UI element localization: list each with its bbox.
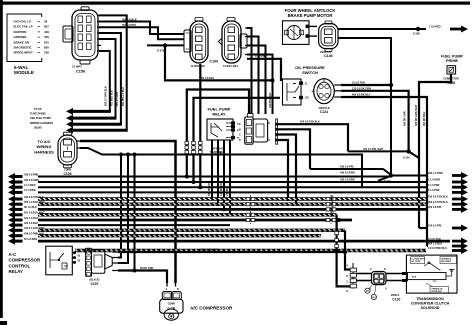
wire oil switch branch 2 [341, 87, 409, 151]
stub top of C157 pin3 wire [126, 153, 130, 161]
svg-text:FUEL PUMP: FUEL PUMP [441, 55, 463, 59]
connector C124 round body [312, 79, 335, 104]
svg-text:BRAKE PUMP MOTOR: BRAKE PUMP MOTOR [288, 13, 333, 18]
ECM bus wire row 11 with left arrow [8, 227, 345, 234]
connector C100 half A body [184, 18, 208, 64]
switch pin marks [299, 81, 309, 99]
right arrow at y=204.2 [428, 201, 468, 208]
svg-text:2 1.0 ORN: 2 1.0 ORN [428, 179, 440, 182]
ECM bus wire row 5 with left arrow [8, 196, 426, 203]
svg-text:C105: C105 [63, 172, 71, 176]
svg-text:A03: A03 [372, 296, 375, 299]
svg-text:450 0.8 TAN BLK: 450 0.8 TAN BLK [428, 201, 448, 204]
right arrow at y=241.1 [428, 238, 468, 245]
connector C124 label [318, 107, 329, 114]
connector C118 distributor body [245, 113, 278, 144]
svg-text:C120: C120 [392, 298, 400, 302]
splice on dist pin3 [294, 202, 298, 206]
connector C157 pin stubs [112, 252, 118, 271]
connector C128 label [443, 78, 459, 86]
ECM bus wire row 2 with left arrow [8, 179, 426, 186]
svg-text:C156: C156 [76, 70, 85, 74]
splice on motor ground [389, 83, 393, 87]
wire branch to C157 pin4 [134, 160, 136, 271]
svg-text:SEE FUEL PUMP: SEE FUEL PUMP [30, 116, 51, 120]
splice on C105 pin2 [119, 153, 123, 157]
svg-text:CONTROL: CONTROL [9, 263, 31, 268]
arrow to ECM row 1 [66, 108, 111, 115]
connector C118 pin marks [275, 123, 278, 141]
right arrow at y=209.4 [428, 206, 468, 213]
svg-text:450 0.8 PPL: 450 0.8 PPL [428, 206, 442, 209]
svg-text:465 DK GRN: 465 DK GRN [404, 111, 407, 126]
svg-text:3 1.0 PNK: 3 1.0 PNK [428, 184, 440, 187]
svg-text:C-138: C-138 [167, 306, 175, 310]
wire relay out 3 [223, 140, 225, 210]
wire C100 feed to oil pressure switch [247, 59, 281, 81]
wire C156 pin C to C100 [99, 27, 184, 39]
ECM bus wire row 10 with left arrow [8, 222, 230, 229]
svg-text:50 0.8 BRN: 50 0.8 BRN [24, 238, 37, 241]
stub top of C157 pin4 wire [133, 153, 137, 161]
right arrow at y=246.0 [428, 243, 468, 250]
wire feeder 3 to ECM bus row 3 [198, 64, 202, 189]
label wire 2 RED [429, 26, 441, 29]
border frame left bar [0, 0, 3, 318]
label row1 mid [340, 172, 355, 175]
svg-text:450 0.8 BLK: 450 0.8 BLK [122, 17, 137, 21]
svg-text:OPEN(S) IN: OPEN(S) IN [441, 258, 452, 260]
label vertical feeder 2 [269, 92, 272, 108]
svg-text:424 0.5 PPL: 424 0.5 PPL [428, 225, 442, 228]
svg-text:A05: A05 [366, 290, 369, 293]
relay K1 label [212, 148, 223, 156]
connector C100 label [210, 60, 219, 64]
connector C157 body [86, 248, 113, 276]
splice on dist pin4 [286, 197, 290, 201]
svg-text:857: 857 [44, 25, 49, 29]
wire C100 pin 1 down [247, 28, 252, 114]
svg-text:881 LT GRN: 881 LT GRN [116, 92, 119, 106]
svg-text:120 DK GRN: 120 DK GRN [220, 181, 223, 196]
ECM bus wire row 3 with left arrow [8, 184, 426, 191]
connector C120 label [391, 294, 401, 301]
wire splice diagonal to C128 branch [409, 151, 419, 158]
label A-C COMPRESSOR CONTROL RELAY [9, 252, 42, 274]
svg-text:31 0.8 TAN: 31 0.8 TAN [352, 82, 365, 85]
connector C156 label [72, 65, 85, 74]
wire C100 pin 2 down [247, 37, 259, 115]
wire C156 pin A down [99, 15, 127, 130]
svg-text:120 0.8 DK GRN: 120 0.8 DK GRN [352, 87, 371, 90]
svg-text:420 0.8 BLK: 420 0.8 BLK [24, 222, 38, 225]
wire dist pin3 [278, 135, 296, 205]
connector C100 half A label [191, 65, 206, 68]
right arrow at y=187.2 [428, 184, 468, 191]
inline connector column C210 on bus [246, 195, 255, 224]
arrow to ECM row 4 [66, 127, 128, 134]
svg-text:2 3.0 RED: 2 3.0 RED [429, 26, 441, 29]
svg-text:S-208: S-208 [413, 33, 420, 36]
label wire 3 PNK [255, 55, 267, 58]
wire C105 pin2 long [80, 148, 362, 187]
svg-text:PRIME: PRIME [446, 59, 458, 63]
svg-text:CLOSED WITH: CLOSED WITH [411, 258, 425, 260]
svg-text:FUSE PANEL: FUSE PANEL [30, 112, 47, 116]
svg-text:A/C COMPRESSOR: A/C COMPRESSOR [190, 306, 233, 311]
relay K1 fuel pump relay box [207, 119, 235, 140]
inline connector column C211 on bus [326, 195, 336, 224]
label vertical wire 465 [404, 111, 407, 126]
splice C157 wire on TCC vertical [343, 250, 347, 254]
connector C118 pin labels [239, 123, 241, 142]
svg-text:799: 799 [44, 51, 49, 55]
label vertical feeder 1 [248, 93, 251, 108]
wire C156 pin F to C100 via G170 [147, 44, 184, 46]
svg-text:416 0.8 TAN BLK: 416 0.8 TAN BLK [428, 196, 448, 199]
svg-text:3 1.0 PNK: 3 1.0 PNK [24, 189, 36, 192]
wire relay out 1 [211, 140, 213, 199]
svg-text:465 DK GRN: 465 DK GRN [208, 181, 211, 196]
label vertical relay wire 1 [208, 181, 211, 196]
svg-text:464 DK BLU: 464 DK BLU [423, 111, 426, 126]
svg-text:COMPRESSOR: COMPRESSOR [9, 258, 42, 263]
wire C100 pin 4 down [247, 55, 273, 115]
arrow to ECM row 2 [66, 115, 117, 122]
label FOUR WHEEL ANTILOCK BRAKE PUMP MOTOR [285, 8, 336, 18]
label wire 450 BLK [122, 17, 137, 21]
wire EST to splice S216 [348, 148, 409, 152]
splice relay wire 3 on row [222, 208, 226, 212]
motor pin stubs [306, 25, 318, 38]
ECM bus wire row 1 with left arrow [8, 173, 391, 180]
svg-text:340 0.8 ORN: 340 0.8 ORN [340, 179, 355, 182]
svg-text:59 0.8 PNK: 59 0.8 PNK [210, 151, 223, 154]
svg-text:424 0.8 TAN BLK: 424 0.8 TAN BLK [300, 121, 320, 124]
label TO A/C WIRING HARNESS [34, 139, 54, 154]
label wire 451 PPL [122, 23, 137, 27]
label FUEL PUMP RELAY [207, 107, 230, 117]
ECM bus wire row 9 with left arrow [8, 217, 352, 224]
svg-text:G170: G170 [157, 49, 165, 53]
label FUEL PUMP PRIME [441, 55, 463, 64]
svg-text:451 0.8 PPL: 451 0.8 PPL [122, 23, 137, 27]
label OIL PRESSURE SWITCH [295, 65, 325, 75]
oil switch pin stubs [334, 85, 341, 97]
relay K1 pin labels [237, 123, 241, 139]
label vertical wire 464 [423, 111, 426, 126]
svg-text:DIAGNOSTIC: DIAGNOSTIC [14, 46, 33, 50]
svg-text:IGNITION: IGNITION [14, 30, 27, 34]
svg-text:450: 450 [44, 35, 49, 39]
connector C100 half B body [218, 18, 247, 64]
svg-text:823 PPL LT BLU: 823 PPL LT BLU [122, 87, 125, 106]
svg-text:439 0.8 PNK: 439 0.8 PNK [24, 173, 39, 176]
svg-text:RELAY: RELAY [212, 111, 226, 116]
wire branch to C157 pin3 [118, 160, 128, 263]
svg-text:13 WAY GRA: 13 WAY GRA [223, 65, 238, 68]
ECM bus wire row 4 with left arrow [8, 189, 426, 196]
wire branch to C157 pin2 [118, 155, 121, 258]
ECM bus wire row 8 with left arrow [8, 211, 337, 218]
motor M1 brake pump motor box [283, 21, 310, 45]
connector C156 pin stubs [97, 15, 101, 51]
wire feeder 2 to ECM bus row 2 [192, 98, 281, 184]
ECM hatched wire bottom [75, 250, 426, 251]
connector C105 body [58, 132, 77, 168]
wire relay out 4 [229, 140, 231, 215]
wire C128 branch elbow to arrow [419, 227, 428, 229]
wire motor B+ feed [338, 28, 426, 30]
connector C128 fuel pump prime body [447, 66, 456, 74]
svg-text:HARNESS: HARNESS [34, 149, 54, 154]
svg-text:C124: C124 [320, 110, 328, 114]
svg-text:459 0.8 DK GRN: 459 0.8 DK GRN [200, 249, 219, 252]
right arrow at y=182.0 [428, 179, 468, 186]
connector C146 body [319, 21, 338, 51]
wire row8 corner to TCC pin D [335, 215, 351, 287]
svg-text:340 1.0 ORN: 340 1.0 ORN [428, 172, 443, 175]
splice S208 [413, 27, 420, 36]
wire C156 pin G down [99, 51, 110, 111]
svg-text:RELAY: RELAY [9, 269, 24, 274]
label vertical TCC wire [332, 195, 335, 214]
svg-text:S-213: S-213 [384, 180, 391, 183]
wire row11 corner to TCC pin A [345, 230, 351, 269]
label vertical wire 1 [105, 86, 108, 106]
svg-text:A-C: A-C [9, 252, 18, 257]
svg-text:39: 39 [44, 20, 48, 24]
svg-text:830: 830 [44, 46, 49, 50]
ECM bus wire row 12 with left arrow [8, 232, 321, 239]
label vertical wire 3 [116, 92, 119, 106]
label A/C COMPRESSOR [190, 306, 233, 311]
svg-text:A: A [166, 288, 168, 291]
svg-text:WIRING HARNESS: WIRING HARNESS [30, 121, 53, 125]
wire oil switch branch 3 [341, 94, 427, 246]
svg-text:13 WAY: 13 WAY [72, 65, 82, 69]
wire C156 pin D down [99, 33, 121, 124]
svg-text:340 0.8 ORN: 340 0.8 ORN [24, 179, 39, 182]
wire dist pin1 [278, 121, 348, 152]
svg-text:464 0.8 DK BLU: 464 0.8 DK BLU [352, 94, 371, 97]
svg-text:S-216: S-216 [403, 157, 410, 160]
wire G170 to splice on C100 feeder [165, 44, 275, 82]
svg-text:850 LT GRN BLK: 850 LT GRN BLK [105, 86, 108, 106]
svg-text:416 0.8 TAN BLK: 416 0.8 TAN BLK [332, 195, 335, 214]
label vertical relay wire 3 [226, 186, 229, 196]
label vertical relay wire 2 [220, 181, 223, 196]
wire C128 to down branch [419, 74, 451, 228]
splice on ECM bus row 9 [337, 218, 341, 222]
wire row0 to merge splice [310, 166, 391, 175]
svg-text:C146: C146 [324, 54, 333, 58]
connector C105 pin stubs [77, 141, 81, 148]
label arrow block [30, 107, 53, 129]
connector C105 label [63, 169, 71, 177]
label vertical wire 2 [110, 90, 113, 106]
svg-text:C100: C100 [210, 60, 219, 64]
inline connector C121 body [346, 263, 356, 293]
svg-text:450 0.8 BLK: 450 0.8 BLK [200, 77, 214, 80]
svg-text:875: 875 [44, 40, 49, 44]
connector C157 label [90, 279, 100, 287]
svg-text:50 1.0 BLK: 50 1.0 BLK [24, 206, 37, 209]
label vertical wire DK GRN WHT [415, 104, 418, 126]
wire C156 pin B to C100 [99, 22, 184, 35]
right arrow at y=250.5 [428, 247, 468, 254]
svg-text:430 0.8 PPL: 430 0.8 PPL [340, 166, 354, 169]
right arrow at y=199.0 [428, 196, 468, 203]
wire oil branch elbow to arrow [427, 245, 428, 247]
svg-text:465 DK GRN WHT: 465 DK GRN WHT [415, 104, 418, 126]
wire inline connector to C120 [356, 274, 371, 281]
svg-text:BRAKE ON: BRAKE ON [14, 40, 29, 44]
switch S1 oil pressure switch box [283, 79, 302, 105]
svg-text:453 RED BLK: 453 RED BLK [110, 90, 113, 106]
splice S216 [403, 149, 411, 159]
splice S213 merge [384, 173, 393, 183]
svg-text:CONVERTER CLUTCH: CONVERTER CLUTCH [411, 302, 450, 306]
wire row2 merge diagonal [378, 176, 390, 181]
svg-text:150 1.0 BLK: 150 1.0 BLK [24, 217, 38, 220]
splice relay wire 1 on row [210, 197, 214, 201]
svg-text:GROUND: GROUND [14, 35, 27, 39]
svg-text:ELEC FAIL LP: ELEC FAIL LP [14, 25, 33, 29]
wire C157 pin1 long right [118, 249, 345, 252]
ECM bus wire row 6 with left arrow [8, 201, 426, 208]
module U1 label [14, 65, 34, 75]
right arrow at y=228.0 [428, 225, 468, 232]
wire C120 to solenoid [386, 272, 408, 282]
svg-text:TO I/P: TO I/P [34, 107, 42, 111]
splice relay wire 2 on row [216, 202, 220, 206]
arrow to ECM row 3 [66, 121, 122, 128]
label vertical wire 4 [122, 87, 125, 106]
relay K2 A/C compressor control relay box [46, 246, 73, 275]
svg-text:13 WAY BLK: 13 WAY BLK [191, 65, 206, 68]
wire dist pin4 [278, 140, 288, 199]
connector C146 label [320, 51, 333, 58]
svg-text:C157: C157 [90, 282, 98, 286]
ECM bus wire row 13 with left arrow [8, 238, 450, 245]
svg-text:21 0.8 TAN: 21 0.8 TAN [428, 238, 441, 241]
svg-text:3 1.0 PNK: 3 1.0 PNK [428, 189, 440, 192]
connector C100 pin stubs [245, 28, 249, 55]
wire motor ground [338, 38, 391, 174]
svg-text:SOLENOID: SOLENOID [421, 306, 440, 310]
wire C157 pin4 to compressor [118, 267, 167, 283]
wire feeder 1 to ECM bus row 1 [185, 90, 249, 179]
svg-text:MODULE: MODULE [14, 70, 34, 75]
wire merged to right arrow [391, 175, 426, 177]
svg-text:HYD FAIL LP: HYD FAIL LP [14, 20, 32, 24]
wire relay out 2 [217, 140, 219, 204]
wire oil switch to splice [341, 82, 391, 86]
relay K2 pins [72, 251, 80, 264]
svg-text:2 1.0 RED: 2 1.0 RED [24, 184, 36, 187]
connector C100 half B label [223, 65, 238, 68]
svg-text:KICKDOWN: KICKDOWN [432, 291, 443, 293]
right arrow at y=175.5 [428, 172, 468, 179]
wire C156 pin E down [99, 39, 116, 118]
svg-text:SWITCH: SWITCH [302, 70, 318, 75]
label row2 mid [340, 179, 355, 182]
module U1 6-WAL MODULE box [7, 14, 49, 62]
connector C120 body [365, 269, 387, 300]
svg-text:ECM: ECM [412, 277, 417, 279]
ECM bus wire row 7 with left arrow [8, 206, 426, 213]
right arrow at y=192.4 [428, 189, 468, 196]
border frame corner mark [0, 321, 7, 325]
svg-text:NO. TEMP: NO. TEMP [411, 261, 421, 263]
svg-text:B: B [177, 288, 179, 291]
svg-text:439: 439 [44, 30, 49, 34]
svg-text:TCC: TCC [433, 281, 438, 283]
svg-text:TRANSMISSION: TRANSMISSION [416, 297, 444, 301]
wire C105 pin1 to A/C compressor [80, 141, 176, 283]
arrow motor feed right [450, 26, 468, 33]
border frame top bar [0, 2, 470, 5]
label TRANSMISSION CONVERTER CLUTCH SOLENOID [411, 297, 450, 310]
wire C100 pin 3 down [247, 46, 266, 115]
svg-text:430 0.5 PPL WHT: 430 0.5 PPL WHT [363, 148, 384, 151]
svg-text:3 1.0 PNK: 3 1.0 PNK [255, 55, 267, 58]
svg-text:440 0.8 ORN: 440 0.8 ORN [340, 172, 355, 175]
svg-text:464 1.0 BLK: 464 1.0 BLK [428, 243, 442, 246]
svg-text:430 PPL WHT: 430 PPL WHT [269, 92, 272, 108]
svg-text:59 DK GRN: 59 DK GRN [140, 267, 154, 270]
compressor pin stubs [166, 281, 180, 291]
connector C156 body [63, 7, 98, 64]
svg-text:3RD GEAR: 3RD GEAR [441, 260, 451, 263]
splice relay wire 4 on row [228, 213, 232, 217]
svg-text:SPEED INPUT: SPEED INPUT [14, 51, 34, 55]
svg-text:(BLW): (BLW) [34, 125, 42, 129]
wire dist pin2 [278, 129, 310, 169]
solenoid L1 TCC box [406, 255, 457, 293]
connector C138 compressor body [160, 292, 183, 321]
svg-text:44 0.5 PNK BLK: 44 0.5 PNK BLK [428, 247, 447, 250]
ground splice G170 [157, 43, 167, 52]
